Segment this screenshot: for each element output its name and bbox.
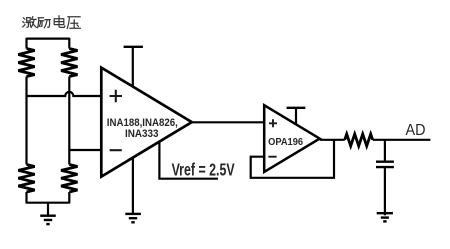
wire feedback U2 out to -in xyxy=(251,140,334,178)
wire node B to -in xyxy=(69,149,101,151)
wire R5 to AD xyxy=(373,139,431,141)
resistor R5 (output) xyxy=(345,134,373,146)
label 激励电压 (excitation voltage, hand-drawn CJK strokes) xyxy=(23,16,81,29)
ground (bridge) xyxy=(40,203,56,224)
电 xyxy=(54,16,65,28)
svg-text:INA333: INA333 xyxy=(125,128,159,140)
wire U1 to ground xyxy=(132,158,134,213)
激 xyxy=(23,18,25,27)
wire node A to +in (hops over right column) xyxy=(27,92,102,96)
wire cap tap xyxy=(384,140,386,162)
plus symbol U1 xyxy=(110,90,122,102)
wire right column middle xyxy=(68,77,70,165)
wire right column bottom xyxy=(68,192,70,204)
wire left column top xyxy=(25,38,27,49)
resistor R3 (lower left) xyxy=(18,165,34,193)
ground (U1) xyxy=(125,214,141,222)
励 xyxy=(38,18,44,28)
wire top rail xyxy=(27,37,70,39)
wire bottom rail xyxy=(27,202,70,204)
minus symbol U2 xyxy=(268,156,276,158)
svg-text:Vref = 2.5V: Vref = 2.5V xyxy=(172,159,235,179)
power V+ of U1 xyxy=(132,47,134,87)
wire right column top xyxy=(68,38,70,49)
resistor R2 (upper right) xyxy=(61,49,77,77)
resistor R4 (lower right) xyxy=(61,165,77,193)
wire U1 out to U2 +in xyxy=(192,121,264,123)
capacitor C1 xyxy=(376,162,394,167)
wire left column middle xyxy=(25,77,27,165)
svg-text:OPA196: OPA196 xyxy=(268,137,303,148)
wire C1 to ground xyxy=(384,168,386,216)
op-amp U2 OPA196 triangle xyxy=(264,105,320,172)
压 xyxy=(67,17,80,29)
wire U2 out xyxy=(320,139,345,141)
power V+ of U2 xyxy=(295,108,297,125)
wire Vref pin xyxy=(159,142,218,179)
svg-text:AD: AD xyxy=(406,122,426,139)
op-amp U1 INA triangle xyxy=(101,68,192,177)
wire left column bottom xyxy=(25,192,27,204)
plus symbol U2 xyxy=(269,119,277,127)
minus symbol U1 xyxy=(110,149,122,151)
ground (C1) xyxy=(377,213,393,221)
resistor R1 (upper left) xyxy=(18,49,34,77)
